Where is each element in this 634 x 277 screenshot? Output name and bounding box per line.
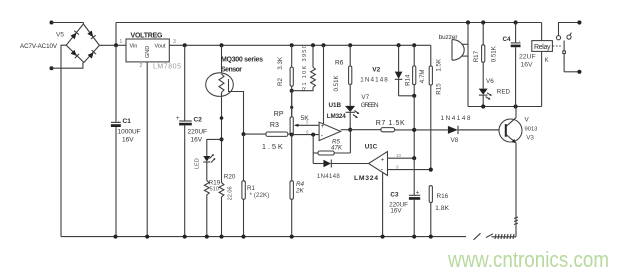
relay K coil box bbox=[532, 23, 553, 107]
bridge rectifier V5 diamond bbox=[66, 24, 99, 63]
svg-text:R1 10K 3950: R1 10K 3950 bbox=[302, 45, 308, 91]
sensor electrode bbox=[229, 79, 244, 134]
svg-text:V7: V7 bbox=[361, 94, 369, 101]
svg-text:R2: R2 bbox=[277, 78, 284, 86]
potentiometer RP 5K bbox=[274, 111, 319, 135]
svg-text:47K: 47K bbox=[331, 144, 343, 151]
svg-text:RED: RED bbox=[497, 89, 511, 96]
LED indicator bbox=[195, 154, 216, 181]
relay contact fixed B bbox=[567, 35, 571, 39]
svg-text:R15: R15 bbox=[435, 83, 442, 95]
svg-text:R7 1.5K: R7 1.5K bbox=[376, 120, 405, 127]
svg-text:MQ300 series: MQ300 series bbox=[221, 57, 263, 64]
node R14 at rail bbox=[412, 43, 416, 47]
svg-text:GND: GND bbox=[145, 46, 151, 58]
svg-text:LM324: LM324 bbox=[354, 175, 378, 182]
svg-text:C2: C2 bbox=[194, 117, 203, 124]
node R3 left junction bbox=[242, 132, 246, 136]
op-amp U1C LM324 bbox=[354, 143, 388, 182]
diode V2 1N4148 bbox=[360, 45, 402, 96]
wire U1C minus input bbox=[388, 169, 431, 171]
svg-text:+: + bbox=[176, 116, 180, 122]
wire top bus (raw DC rail) bbox=[116, 22, 542, 24]
wire LED branch bbox=[207, 139, 222, 156]
wire left negative bus bbox=[61, 45, 66, 236]
svg-text:0.51K: 0.51K bbox=[490, 45, 497, 62]
svg-text:R20: R20 bbox=[224, 174, 236, 181]
node C4 at top bus bbox=[514, 20, 518, 24]
node R6 top at rail bbox=[348, 43, 352, 47]
svg-text:2: 2 bbox=[140, 63, 143, 69]
wire collector sub-rail bbox=[468, 106, 542, 108]
svg-text:R3: R3 bbox=[270, 122, 279, 129]
node C2 at +5V rail bbox=[183, 43, 187, 47]
svg-text:R14: R14 bbox=[404, 74, 411, 86]
resistor R1 10K 3950 loop bbox=[292, 45, 316, 91]
diode U1B feedback 1N4148 bbox=[313, 160, 368, 180]
node R1 22K at bus bbox=[242, 235, 246, 239]
svg-text:R17: R17 bbox=[473, 50, 480, 62]
node C1 at bus bbox=[114, 235, 118, 239]
node LED branch junction bbox=[220, 137, 224, 141]
wire heater top bbox=[221, 45, 223, 74]
ground bus break slash bbox=[474, 233, 481, 240]
wire feedback down bbox=[312, 135, 314, 164]
resistor R3 bbox=[244, 122, 292, 151]
diode bridge bottom-right bbox=[87, 50, 96, 59]
capacitor C2 bbox=[176, 45, 207, 236]
diode bridge top-left bbox=[70, 31, 79, 40]
ground bus stitched segment with arrow bbox=[486, 234, 516, 239]
node V2 R14 junction bbox=[412, 94, 416, 98]
relay actuation dashed link bbox=[553, 45, 563, 47]
capacitor C4 bbox=[503, 23, 536, 107]
svg-text:9013: 9013 bbox=[525, 127, 538, 133]
node U1C gnd at bus bbox=[381, 235, 385, 239]
wire VOLTREG GND pin to ground bus bbox=[146, 62, 148, 237]
diode V8 1N4148 bbox=[441, 115, 506, 144]
svg-text:1.5K: 1.5K bbox=[435, 58, 442, 72]
node C3 at bus bbox=[412, 235, 416, 239]
wire +5V rail bbox=[99, 44, 126, 46]
node RP column mid mark bbox=[290, 106, 293, 109]
svg-text:* (22K): * (22K) bbox=[250, 192, 270, 199]
svg-text:Vout: Vout bbox=[155, 44, 166, 50]
diode bridge top-right bbox=[87, 30, 96, 39]
resistor R1 22K bbox=[242, 181, 269, 237]
wire contact B stub bbox=[570, 33, 572, 36]
svg-text:+: + bbox=[321, 124, 325, 130]
wire R2 node to RP bbox=[291, 91, 293, 117]
resistor R14 4.7M bbox=[404, 45, 426, 96]
resistor R16 1.8K bbox=[429, 186, 449, 237]
node R4 at bus bbox=[290, 235, 294, 239]
svg-text:V5: V5 bbox=[56, 32, 64, 39]
wire U1B V+ bbox=[323, 45, 325, 124]
wire U1B output bbox=[341, 129, 381, 131]
node R17 at top bus bbox=[481, 20, 485, 24]
LED V7 GREEN bbox=[345, 94, 379, 130]
wire U1C ground pin bbox=[382, 173, 384, 237]
svg-text:R16: R16 bbox=[437, 193, 449, 200]
svg-text:510: 510 bbox=[210, 186, 219, 192]
node heater mid junction bbox=[220, 116, 224, 120]
svg-text:www.cntronics.com: www.cntronics.com bbox=[447, 247, 609, 272]
node R16 at bus bbox=[429, 235, 433, 239]
wire contact A to top terminal bbox=[559, 23, 580, 36]
resistor R17 bbox=[473, 23, 497, 89]
svg-text:1000UF: 1000UF bbox=[118, 129, 141, 136]
resistor R2 bbox=[277, 45, 293, 117]
svg-text:+: + bbox=[381, 157, 385, 163]
svg-text:C3: C3 bbox=[390, 192, 399, 199]
svg-text:16V: 16V bbox=[521, 62, 534, 69]
svg-text:V3: V3 bbox=[526, 135, 534, 142]
svg-text:1.8K: 1.8K bbox=[435, 205, 449, 212]
node R1 heater loop at rail bbox=[311, 43, 315, 47]
emitter line break marks bbox=[514, 217, 518, 225]
svg-text:R6: R6 bbox=[335, 60, 344, 67]
node R3 RP R4 junction bbox=[290, 133, 294, 137]
wire armature to bottom terminal bbox=[564, 71, 579, 73]
wire RP bottom to R4 bbox=[291, 135, 293, 181]
capacitor C1 bbox=[111, 45, 141, 236]
wire AC top terminal to bridge bbox=[52, 23, 84, 25]
svg-text:1: 1 bbox=[120, 39, 123, 45]
wire heater bottom bbox=[221, 92, 223, 182]
node U1B output bbox=[348, 128, 352, 132]
wire R20 to bus bbox=[221, 198, 223, 236]
svg-text:3: 3 bbox=[173, 39, 176, 45]
resistor R6 bbox=[333, 45, 352, 106]
svg-text:3.3K: 3.3K bbox=[277, 56, 284, 70]
svg-text:22UF: 22UF bbox=[519, 54, 536, 61]
svg-text:LM324: LM324 bbox=[327, 113, 346, 120]
svg-text:U1C: U1C bbox=[365, 143, 378, 150]
wire sensor electrode to R1 22K bbox=[243, 134, 245, 181]
svg-text:16V: 16V bbox=[191, 137, 203, 144]
svg-text:AC7V-AC10V: AC7V-AC10V bbox=[20, 43, 58, 50]
svg-text:1N4148: 1N4148 bbox=[317, 173, 341, 180]
transistor V3 9013 bbox=[499, 107, 537, 237]
node relay bottom terminal bbox=[577, 70, 581, 74]
node R20 at bus bbox=[220, 235, 224, 239]
node U1C minus R15 R16 junction bbox=[429, 168, 433, 172]
relay contact fixed A bbox=[556, 36, 560, 40]
svg-text:C1: C1 bbox=[123, 118, 132, 125]
sensor MQ300 body bbox=[206, 73, 234, 97]
svg-text:U1B: U1B bbox=[329, 102, 342, 109]
svg-text:10: 10 bbox=[396, 153, 402, 158]
svg-text:2K: 2K bbox=[295, 187, 305, 194]
node relay top terminal bbox=[577, 20, 581, 24]
node U1B power at rail bbox=[322, 43, 326, 47]
sensor heater zigzag bbox=[219, 74, 224, 92]
svg-text:220UF: 220UF bbox=[188, 129, 208, 136]
svg-text:Sensor: Sensor bbox=[221, 67, 242, 74]
op-amp U1B LM324 bbox=[319, 102, 346, 141]
wire U1B minus input bbox=[292, 134, 319, 136]
capacitor C3 bbox=[389, 158, 420, 236]
node U1C plus C3 junction bbox=[412, 156, 416, 160]
wire bottom ground bus bbox=[61, 236, 466, 238]
wire base line to transistor bbox=[460, 129, 506, 131]
wire V2 to R14 node bbox=[399, 95, 415, 97]
buzzer bbox=[439, 34, 468, 60]
resistor R7 1.5K bbox=[376, 120, 405, 132]
diode bridge bottom-left bbox=[70, 50, 79, 59]
resistor R20 zigzag bbox=[219, 183, 224, 199]
svg-text:22.06: 22.06 bbox=[228, 186, 234, 200]
wire AC bottom terminal to bridge bbox=[52, 63, 83, 69]
node V2 top at rail bbox=[397, 43, 401, 47]
svg-text:LED: LED bbox=[195, 158, 201, 169]
wire R14 node down to U1C plus bbox=[413, 96, 415, 158]
wire top bus riser to bridge output bbox=[115, 23, 117, 46]
LED V6 RED bbox=[479, 78, 511, 107]
svg-text:LM7805: LM7805 bbox=[153, 64, 181, 71]
svg-text:C4: C4 bbox=[503, 36, 512, 43]
resistor R15 1.5K bbox=[429, 45, 442, 169]
node AC input terminal top bbox=[50, 21, 54, 25]
svg-text:1.5K: 1.5K bbox=[262, 142, 283, 151]
svg-text:16V: 16V bbox=[390, 208, 402, 215]
svg-text:1N4148: 1N4148 bbox=[360, 77, 388, 84]
node sensor heater at rail bbox=[220, 43, 224, 47]
svg-text:V2: V2 bbox=[372, 67, 380, 74]
svg-text:Relay: Relay bbox=[534, 44, 551, 51]
svg-text:RP: RP bbox=[274, 111, 284, 118]
resistor R19 zigzag bbox=[204, 181, 209, 197]
relay armature lever bbox=[563, 41, 566, 72]
regulator U LM7805 box VOLTREG bbox=[126, 39, 169, 62]
resistor R5 47K bbox=[313, 130, 350, 155]
node V6 at sub-rail bbox=[481, 104, 485, 108]
resistor R4 2K bbox=[290, 181, 305, 237]
node C4 collector junction bbox=[514, 104, 518, 108]
svg-text:V8: V8 bbox=[451, 137, 459, 144]
svg-text:+: + bbox=[416, 190, 420, 196]
wire buzzer column bbox=[467, 23, 469, 107]
node AC input terminal bottom bbox=[50, 66, 54, 70]
node R2 bottom junction bbox=[290, 89, 294, 93]
wire U1C plus input bbox=[388, 157, 415, 159]
wire base line R7 to V8 bbox=[395, 129, 448, 131]
svg-text:0.51K: 0.51K bbox=[333, 74, 340, 91]
node VOLTREG gnd at bus bbox=[145, 235, 149, 239]
svg-text:16V: 16V bbox=[122, 137, 134, 144]
svg-text:VOLTREG: VOLTREG bbox=[131, 33, 164, 40]
svg-text:V6: V6 bbox=[486, 78, 494, 85]
node bridge output junction bbox=[114, 43, 118, 47]
svg-text:GREEN: GREEN bbox=[361, 102, 379, 109]
node base line crossing junction bbox=[412, 128, 416, 132]
node U1B feedback junction bbox=[311, 133, 315, 137]
node C2 at bus bbox=[183, 235, 187, 239]
svg-text:4.7M: 4.7M bbox=[419, 69, 426, 83]
node R2 top at rail bbox=[290, 43, 294, 47]
svg-text:Vin: Vin bbox=[130, 44, 138, 50]
node buzzer at top bus bbox=[466, 20, 470, 24]
wire R19 to bus bbox=[206, 196, 208, 236]
node R19 at bus bbox=[205, 235, 209, 239]
